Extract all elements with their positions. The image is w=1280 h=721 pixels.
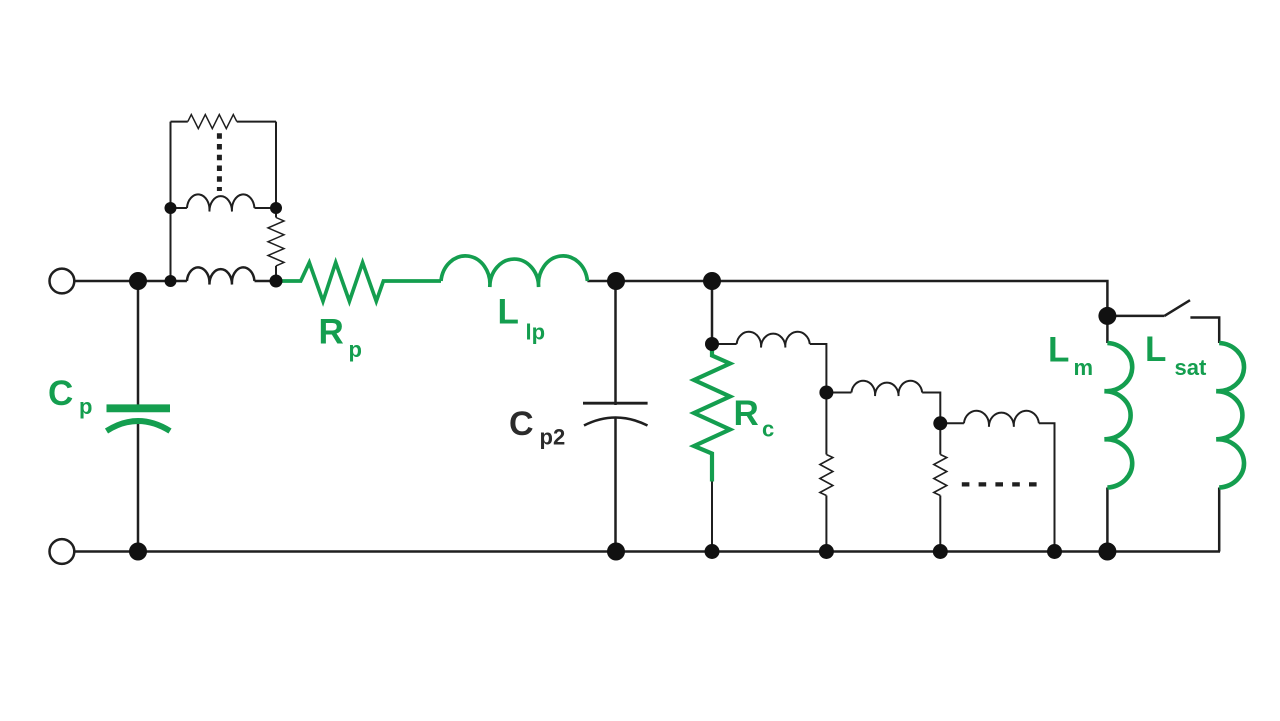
svg-text:L: L xyxy=(1048,331,1069,370)
svg-text:C: C xyxy=(509,405,534,443)
svg-text:p: p xyxy=(349,337,362,362)
svg-text:sat: sat xyxy=(1175,355,1207,380)
svg-text:c: c xyxy=(762,417,774,442)
svg-text:lp: lp xyxy=(526,320,546,345)
svg-text:C: C xyxy=(48,374,73,413)
svg-text:R: R xyxy=(734,394,759,433)
svg-text:m: m xyxy=(1074,355,1094,380)
svg-text:L: L xyxy=(1145,330,1166,369)
svg-text:R: R xyxy=(319,313,344,352)
svg-text:p: p xyxy=(79,394,92,419)
svg-text:p2: p2 xyxy=(540,425,566,450)
svg-text:L: L xyxy=(498,293,519,332)
